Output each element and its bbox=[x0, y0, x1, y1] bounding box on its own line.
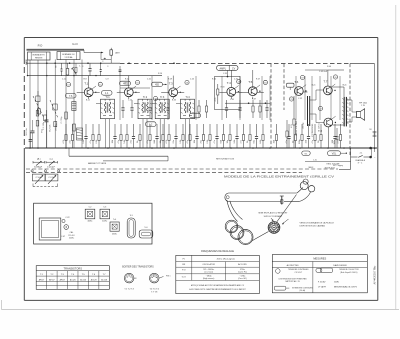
transistor case pinout 1 bbox=[124, 273, 134, 283]
capacitor CV gang cell B bbox=[45, 174, 58, 181]
svg-text:3-87(A)pF: 3-87(A)pF bbox=[34, 165, 43, 168]
resistor R2 bbox=[72, 124, 74, 135]
svg-text:PIN 1: PIN 1 bbox=[166, 276, 171, 278]
svg-text:Tr.1: Tr.1 bbox=[105, 96, 110, 99]
svg-text:AC126: AC126 bbox=[70, 278, 76, 281]
wire volume line bbox=[305, 161, 351, 163]
wire av line bbox=[69, 155, 168, 157]
svg-text:435Kc: 435Kc bbox=[112, 234, 117, 236]
svg-text:REGL VOLUME: REGL VOLUME bbox=[296, 120, 298, 136]
adjust tag vol 2 bbox=[328, 151, 341, 156]
svg-text:R.16: R.16 bbox=[158, 73, 162, 75]
dial cord descending lines bbox=[227, 200, 238, 222]
svg-text:DISPOSITION DU CADRAN: DISPOSITION DU CADRAN bbox=[300, 225, 326, 228]
transistor T.2 bbox=[124, 88, 133, 97]
wire speaker leads bbox=[351, 100, 353, 112]
svg-text:Tr.5: Tr.5 bbox=[130, 214, 133, 217]
svg-text:1 W: 1 W bbox=[361, 105, 365, 107]
capacitor C20 bbox=[266, 100, 268, 108]
svg-text:T.3: T.3 bbox=[169, 81, 173, 85]
resistor R28 bbox=[206, 100, 208, 106]
resistor R11 bbox=[182, 124, 184, 135]
wire top dashed bus bbox=[120, 63, 350, 65]
dial cord spiral drum bbox=[268, 222, 280, 234]
dial cord loop ring 3 bbox=[238, 230, 253, 245]
chassis trimmer square Tr3 bbox=[100, 209, 110, 219]
svg-text:C.05 6uF: C.05 6uF bbox=[319, 71, 328, 73]
dial cord right pulley wrap bbox=[300, 182, 308, 190]
mesures icon circle bbox=[276, 269, 281, 274]
capacitor CV trimmer 1 bbox=[36, 96, 40, 102]
svg-text:T.1 T.2 T.3: T.1 T.2 T.3 bbox=[124, 289, 134, 291]
svg-text:OSCILLATOR: OSCILLATOR bbox=[202, 263, 215, 266]
resistor R1 top bbox=[66, 69, 69, 76]
svg-text:455 kc (Haut-signal): 455 kc (Haut-signal) bbox=[217, 258, 235, 261]
small cap C3 near antenna bbox=[119, 66, 121, 70]
svg-text:MADE: MADE bbox=[25, 58, 28, 64]
base feed wires bbox=[77, 91, 85, 93]
svg-text:G.O: G.O bbox=[182, 276, 186, 278]
svg-text:R.37: R.37 bbox=[252, 99, 256, 101]
adjust tag REGL 1 bbox=[120, 81, 131, 85]
rounded tag 2 bbox=[102, 91, 113, 96]
resistor R2 left bbox=[65, 112, 68, 119]
svg-text:500Hz: 500Hz bbox=[334, 281, 339, 283]
battery terminal plus bbox=[369, 147, 372, 150]
svg-text:C.V2: C.V2 bbox=[65, 217, 69, 219]
svg-text:MODELE DE LA FICELLE ENTRAINEM: MODELE DE LA FICELLE ENTRAINEMENT (GRILL… bbox=[224, 175, 334, 179]
svg-text:T.6: T.6 bbox=[294, 80, 298, 84]
svg-text:4.7k: 4.7k bbox=[215, 98, 217, 102]
svg-text:(Carte PL): (Carte PL) bbox=[238, 271, 247, 274]
capacitor C3 bbox=[133, 124, 135, 136]
wire t8 emitter bbox=[327, 127, 329, 148]
amplifier stage box bbox=[215, 77, 241, 110]
svg-text:TENSIONS CONTINUES: TENSIONS CONTINUES bbox=[288, 269, 309, 271]
left small cap bbox=[29, 139, 33, 141]
wire secondary bus bbox=[27, 75, 162, 77]
wire top supply bus bbox=[26, 62, 120, 64]
svg-text:(Cars GO): (Cars GO) bbox=[238, 277, 247, 280]
svg-text:AC128: AC128 bbox=[101, 278, 107, 281]
svg-text:CP 2A PH: CP 2A PH bbox=[318, 286, 327, 289]
resistor R15 bbox=[223, 124, 225, 135]
transistor T.5 bbox=[248, 87, 257, 96]
svg-text:T.4: T.4 bbox=[227, 81, 231, 85]
diagonal gang dashes bbox=[33, 96, 44, 118]
wire dashed section divider 2 bbox=[283, 64, 285, 110]
chassis electrolytic can bbox=[127, 218, 135, 238]
svg-text:CV: CV bbox=[232, 67, 236, 70]
dial cord loops to drum wire bbox=[253, 232, 269, 241]
capacitor C2 bbox=[100, 69, 102, 71]
svg-text:P.O: P.O bbox=[182, 270, 186, 272]
wire av line 2 bbox=[103, 160, 168, 162]
resistor R26 bbox=[75, 64, 77, 68]
capacitor C1 bbox=[85, 124, 87, 136]
svg-text:525 - 1605kc: 525 - 1605kc bbox=[203, 269, 214, 271]
table mesures bbox=[272, 255, 367, 293]
svg-text:T.7: T.7 bbox=[323, 79, 327, 83]
wire dashed section divider 1 bbox=[270, 64, 272, 148]
svg-text:1.25: 1.25 bbox=[313, 159, 317, 161]
transistor T.8 bbox=[324, 118, 333, 127]
resistor R30 bbox=[259, 100, 261, 106]
svg-text:C.52: C.52 bbox=[298, 98, 302, 100]
svg-text:ANT: ANT bbox=[115, 51, 120, 54]
resistor R24 bbox=[320, 124, 322, 135]
capacitor C14 bbox=[122, 100, 124, 108]
rounded tag 1 bbox=[66, 93, 77, 98]
dial cord left pulley bend bbox=[225, 193, 229, 202]
oscillator coil box left bbox=[72, 102, 76, 111]
wire battery feed right bbox=[374, 64, 376, 148]
page scan edge bbox=[1, 300, 3, 310]
svg-text:AU RUPTES: AU RUPTES bbox=[287, 264, 300, 267]
capacitor C12 bbox=[334, 124, 336, 136]
resistor R14 bbox=[209, 124, 211, 135]
svg-text:DAVE DESMO: DAVE DESMO bbox=[333, 264, 347, 267]
capacitor trimmer arrow B bbox=[46, 161, 58, 163]
svg-text:G.O: G.O bbox=[72, 42, 78, 46]
svg-text:SUR LE TOURNANT: SUR LE TOURNANT bbox=[264, 215, 284, 218]
resistor R10 bbox=[168, 124, 170, 135]
resistor R31 bbox=[293, 96, 295, 119]
adjust tag mid bbox=[190, 113, 201, 118]
adjust tag t6 bbox=[287, 83, 295, 87]
svg-text:525Kc: 525Kc bbox=[69, 238, 74, 240]
svg-text:VOL: VOL bbox=[332, 154, 337, 156]
svg-text:TRANSISTORS: TRANSISTORS bbox=[64, 267, 83, 271]
svg-text:F.I: F.I bbox=[183, 259, 186, 261]
svg-text:(Bob. Equal.D 100%): (Bob. Equal.D 100%) bbox=[340, 272, 357, 274]
capacitor C13 bbox=[89, 64, 91, 69]
transformer box drops bbox=[105, 119, 107, 148]
resistor R21 bbox=[295, 124, 297, 135]
wire dashed gang line 1 bbox=[26, 168, 338, 170]
resistor R19 bbox=[262, 124, 264, 135]
svg-text:F. 100 AV: F. 100 AV bbox=[318, 280, 326, 283]
dial cord arrows bbox=[282, 219, 289, 224]
svg-text:MASSE POT VERS: MASSE POT VERS bbox=[88, 162, 107, 165]
svg-text:ACCORD: ACCORD bbox=[238, 263, 247, 266]
antenna trimmer cap bbox=[104, 58, 106, 59]
svg-text:FREQUENCES DE REGLAGE: FREQUENCES DE REGLAGE bbox=[201, 250, 234, 253]
resistor R12 bbox=[189, 124, 191, 135]
svg-text:FERRITE: FERRITE bbox=[35, 57, 43, 59]
resistor R23 bbox=[314, 124, 316, 135]
svg-text:P.O: P.O bbox=[42, 129, 44, 133]
resistor R17 bbox=[243, 124, 245, 135]
table transistors bbox=[36, 266, 109, 290]
dial cord loop ring 2 bbox=[230, 226, 244, 240]
callout circles bbox=[98, 82, 102, 86]
svg-text:HP 16Ω: HP 16Ω bbox=[359, 102, 367, 104]
wire t7 upper rail bbox=[305, 69, 328, 71]
svg-text:AV 44 2000/7 Rho: AV 44 2000/7 Rho bbox=[373, 265, 376, 284]
svg-text:R.2 47k: R.2 47k bbox=[49, 125, 51, 132]
svg-text:C.47: C.47 bbox=[61, 236, 65, 238]
svg-text:T.7 T.8: T.7 T.8 bbox=[151, 292, 158, 294]
svg-text:T.1: T.1 bbox=[84, 81, 88, 85]
wire dashed gang line 2 bbox=[26, 172, 302, 174]
svg-text:C.7 56p: C.7 56p bbox=[61, 116, 63, 124]
adjust tag AMPL CV bbox=[217, 65, 239, 70]
wire driver leads bbox=[303, 91, 307, 93]
chassis transformer block bbox=[39, 218, 61, 240]
resistor R16 bbox=[229, 124, 231, 135]
wire output transformer leads bbox=[332, 86, 344, 88]
wire output box bottom corner bbox=[350, 148, 352, 169]
capacitor C11 bbox=[308, 124, 310, 136]
svg-text:MISE EN PLACE DU RESSORT: MISE EN PLACE DU RESSORT bbox=[259, 212, 289, 215]
svg-text:C.V Bo: C.V Bo bbox=[48, 177, 55, 179]
chassis trimmer square Tr4 bbox=[110, 222, 119, 231]
svg-text:INT 2 appuy: INT 2 appuy bbox=[333, 165, 343, 167]
svg-text:MESURES AVALON 4 0KPG: MESURES AVALON 4 0KPG bbox=[334, 286, 358, 289]
resistor R32 bbox=[286, 120, 288, 131]
drawing border frame bbox=[24, 37, 378, 39]
transistor T.4 bbox=[227, 87, 236, 96]
svg-text:AF117: AF117 bbox=[60, 278, 65, 281]
dial cord bottom run bbox=[229, 201, 282, 203]
svg-text:T.8: T.8 bbox=[318, 129, 322, 133]
transistor T.6 bbox=[294, 87, 303, 96]
capacitor C4 bbox=[156, 124, 158, 136]
wire right edge drops bbox=[371, 148, 373, 157]
wire main bottom bus bbox=[25, 147, 377, 149]
capacitor C6 bbox=[196, 124, 198, 136]
resistor R18 bbox=[249, 124, 251, 135]
svg-text:MODE 49.52: MODE 49.52 bbox=[325, 168, 335, 170]
svg-text:B.33: B.33 bbox=[172, 100, 176, 102]
svg-text:575kc: 575kc bbox=[240, 269, 245, 271]
svg-text:P.O: P.O bbox=[38, 44, 43, 48]
speaker HP bbox=[356, 109, 364, 121]
transistor case pinout 2 bbox=[149, 273, 159, 283]
resistor R7 bbox=[139, 124, 141, 135]
capacitor CV trimmer 2 bbox=[53, 104, 57, 110]
svg-text:CHARGE A: CHARGE A bbox=[355, 159, 366, 162]
chassis trimmer square Tr2 bbox=[85, 209, 95, 219]
dial cord spring tensioner bbox=[281, 196, 283, 205]
svg-text:AF117: AF117 bbox=[49, 278, 54, 281]
transformer Tr.1 bbox=[101, 99, 115, 119]
driver transformer bars bbox=[307, 96, 309, 126]
capacitor C19 bbox=[239, 100, 241, 108]
svg-text:RAPPORT AU - 9V: RAPPORT AU - 9V bbox=[285, 280, 300, 283]
transformer Tr.4 bbox=[181, 99, 195, 119]
wire dashed output box bbox=[349, 64, 351, 155]
chassis layout box bbox=[34, 203, 152, 244]
svg-text:Tr.3: Tr.3 bbox=[160, 96, 165, 99]
svg-text:S.10 4a: S.10 4a bbox=[26, 128, 28, 136]
svg-text:B.21: B.21 bbox=[86, 100, 90, 102]
svg-text:BOBINAGE GO: BOBINAGE GO bbox=[62, 53, 75, 56]
transformer output TR5 core bars bbox=[343, 97, 345, 127]
svg-text:(50 uA): (50 uA) bbox=[300, 289, 306, 292]
resistor R25 bbox=[340, 124, 342, 135]
svg-text:(A.): (A.) bbox=[37, 157, 41, 160]
wire antenna return bbox=[100, 53, 102, 60]
dial cord loop ring 1 bbox=[225, 220, 238, 233]
inductor L1 PO antenna coil bbox=[28, 52, 51, 60]
mesures icon box bbox=[274, 286, 286, 290]
svg-text:400Kc: 400Kc bbox=[87, 221, 92, 223]
svg-text:400Kc: 400Kc bbox=[102, 221, 107, 223]
capacitor C21 bbox=[336, 128, 338, 137]
svg-text:C.17: C.17 bbox=[128, 100, 132, 102]
diode top left bbox=[72, 68, 76, 74]
capacitor C1 coupling bbox=[61, 68, 63, 70]
svg-text:Tr.2: Tr.2 bbox=[143, 96, 148, 99]
mesures right icon boxes bbox=[316, 268, 322, 272]
svg-text:RETOUR AV TOUS: RETOUR AV TOUS bbox=[216, 158, 235, 161]
svg-text:TENSION COLLECTOR: TENSION COLLECTOR bbox=[339, 269, 359, 271]
resistor R1 bbox=[65, 124, 67, 135]
capacitor C10 bbox=[288, 124, 290, 136]
svg-text:~180kc: ~180kc bbox=[206, 275, 212, 277]
resistor R4 bbox=[98, 124, 100, 135]
inductor L2 GO antenna coil bbox=[57, 52, 80, 60]
antenna ANT symbol bbox=[84, 52, 103, 54]
resistor R27 bbox=[198, 100, 200, 106]
svg-text:Tr.4: Tr.4 bbox=[113, 218, 116, 221]
transformer Tr.3 bbox=[155, 99, 169, 119]
left small rect parts bbox=[44, 115, 47, 121]
switch and minus terminal bbox=[351, 156, 358, 158]
capacitor C7 bbox=[216, 124, 218, 136]
resistor R22 bbox=[301, 124, 303, 135]
svg-text:(High niveau): (High niveau) bbox=[203, 278, 215, 280]
svg-text:T.4 T.5 T.6: T.4 T.5 T.6 bbox=[149, 289, 159, 291]
svg-text:AF117: AF117 bbox=[39, 278, 44, 281]
svg-text:C.35: C.35 bbox=[223, 73, 227, 75]
svg-text:(a.): (a.) bbox=[50, 158, 54, 160]
capacitor C15 bbox=[131, 100, 133, 108]
svg-text:C.41: C.41 bbox=[230, 99, 234, 101]
resistor R9 bbox=[162, 124, 164, 135]
capacitor C18 bbox=[226, 100, 228, 108]
capacitor C8 bbox=[236, 124, 238, 136]
label osc coil bbox=[77, 128, 83, 140]
capacitor C17 bbox=[167, 100, 169, 108]
resistor R3 left bbox=[73, 124, 76, 131]
adjust tag vol 1 bbox=[302, 151, 310, 155]
svg-text:T.5: T.5 bbox=[248, 80, 252, 84]
resistor R3 bbox=[92, 124, 94, 135]
svg-text:AMPL: AMPL bbox=[220, 67, 227, 70]
mid horizontal wire t4 t5 bbox=[225, 102, 270, 104]
svg-text:VERS LE BOBINAGE DE LA FICELLE: VERS LE BOBINAGE DE LA FICELLE bbox=[300, 221, 335, 224]
wire ferrite rod line bbox=[27, 48, 85, 50]
capacitor C2 bbox=[114, 124, 116, 136]
svg-text:AC126: AC126 bbox=[80, 278, 86, 281]
svg-text:~174kc: ~174kc bbox=[239, 275, 245, 277]
resistor R8 bbox=[149, 124, 151, 135]
svg-text:LES TENSIONS SONT PRISES PAR: LES TENSIONS SONT PRISES PAR bbox=[279, 278, 308, 281]
svg-text:BOBINAGE PO: BOBINAGE PO bbox=[33, 53, 46, 56]
capacitor C9 bbox=[256, 124, 258, 136]
svg-text:MESURES: MESURES bbox=[313, 257, 326, 261]
svg-text:R.33: R.33 bbox=[221, 87, 225, 89]
transistor T.1 bbox=[84, 88, 93, 97]
battery symbol right bbox=[373, 131, 377, 133]
transistor T.3 bbox=[169, 88, 178, 97]
svg-text:57078 BA: 57078 BA bbox=[65, 56, 74, 59]
transformer Tr.2 bbox=[138, 99, 152, 119]
left small parts bbox=[36, 111, 39, 117]
chassis cal circle bbox=[64, 225, 69, 230]
junction dots on buses bbox=[46, 62, 48, 64]
svg-text:Tr.4: Tr.4 bbox=[185, 96, 190, 99]
resistor R5 bbox=[120, 124, 122, 135]
svg-text:PO-GO: PO-GO bbox=[68, 235, 75, 237]
adjust tag mid2 bbox=[146, 122, 157, 127]
wire coil drops bbox=[29, 60, 31, 148]
adjust tag REGL 2 bbox=[152, 82, 163, 86]
capacitor C5 bbox=[175, 124, 177, 136]
resistor bias T4 bbox=[217, 84, 219, 89]
svg-text:C.1 120p: C.1 120p bbox=[43, 121, 45, 130]
gang link circles on dashed bus bbox=[31, 170, 33, 172]
resistor R29 bbox=[252, 100, 254, 106]
capacitor C4 left bbox=[45, 119, 49, 121]
svg-text:BOITIER DES TRANSISTORS: BOITIER DES TRANSISTORS bbox=[122, 266, 154, 269]
wire stubs transformers to transistors bbox=[96, 103, 101, 105]
resistor R13 bbox=[203, 124, 205, 135]
capacitor trimmer arrow A bbox=[33, 161, 45, 163]
svg-text:10k log: 10k log bbox=[303, 123, 305, 129]
svg-text:CV VOLT: CV VOLT bbox=[295, 272, 303, 274]
capacitor CV gang cell A bbox=[32, 174, 45, 181]
wire t7 collector bbox=[327, 70, 329, 86]
svg-text:CAL: CAL bbox=[70, 231, 74, 234]
svg-text:2.5(10)pF: 2.5(10)pF bbox=[47, 166, 56, 168]
svg-text:AC128: AC128 bbox=[91, 278, 97, 281]
svg-text:8 − C: 8 − C bbox=[358, 163, 363, 165]
resistor R6 bbox=[126, 124, 128, 135]
svg-text:POTENTIOM.: POTENTIOM. bbox=[312, 123, 314, 136]
dial cord drum up wire bbox=[277, 195, 297, 222]
svg-text:R.44: R.44 bbox=[327, 66, 331, 68]
mid horizontal wire t2 t3 bbox=[120, 87, 150, 89]
long vertical wires bbox=[119, 76, 121, 120]
wire left edge drop bbox=[27, 60, 29, 76]
transistor T.7 bbox=[324, 86, 333, 95]
chassis connector capsule bbox=[139, 230, 153, 238]
gang mechanical dashed link bbox=[33, 186, 58, 188]
svg-text:470 Ω: 470 Ω bbox=[319, 123, 321, 129]
svg-text:Tr.6: Tr.6 bbox=[144, 226, 147, 229]
dial cord top run bbox=[229, 192, 298, 194]
resistor R20 bbox=[276, 124, 278, 135]
capacitor C16 bbox=[149, 100, 151, 108]
svg-text:(L.C haut): (L.C haut) bbox=[204, 271, 213, 274]
